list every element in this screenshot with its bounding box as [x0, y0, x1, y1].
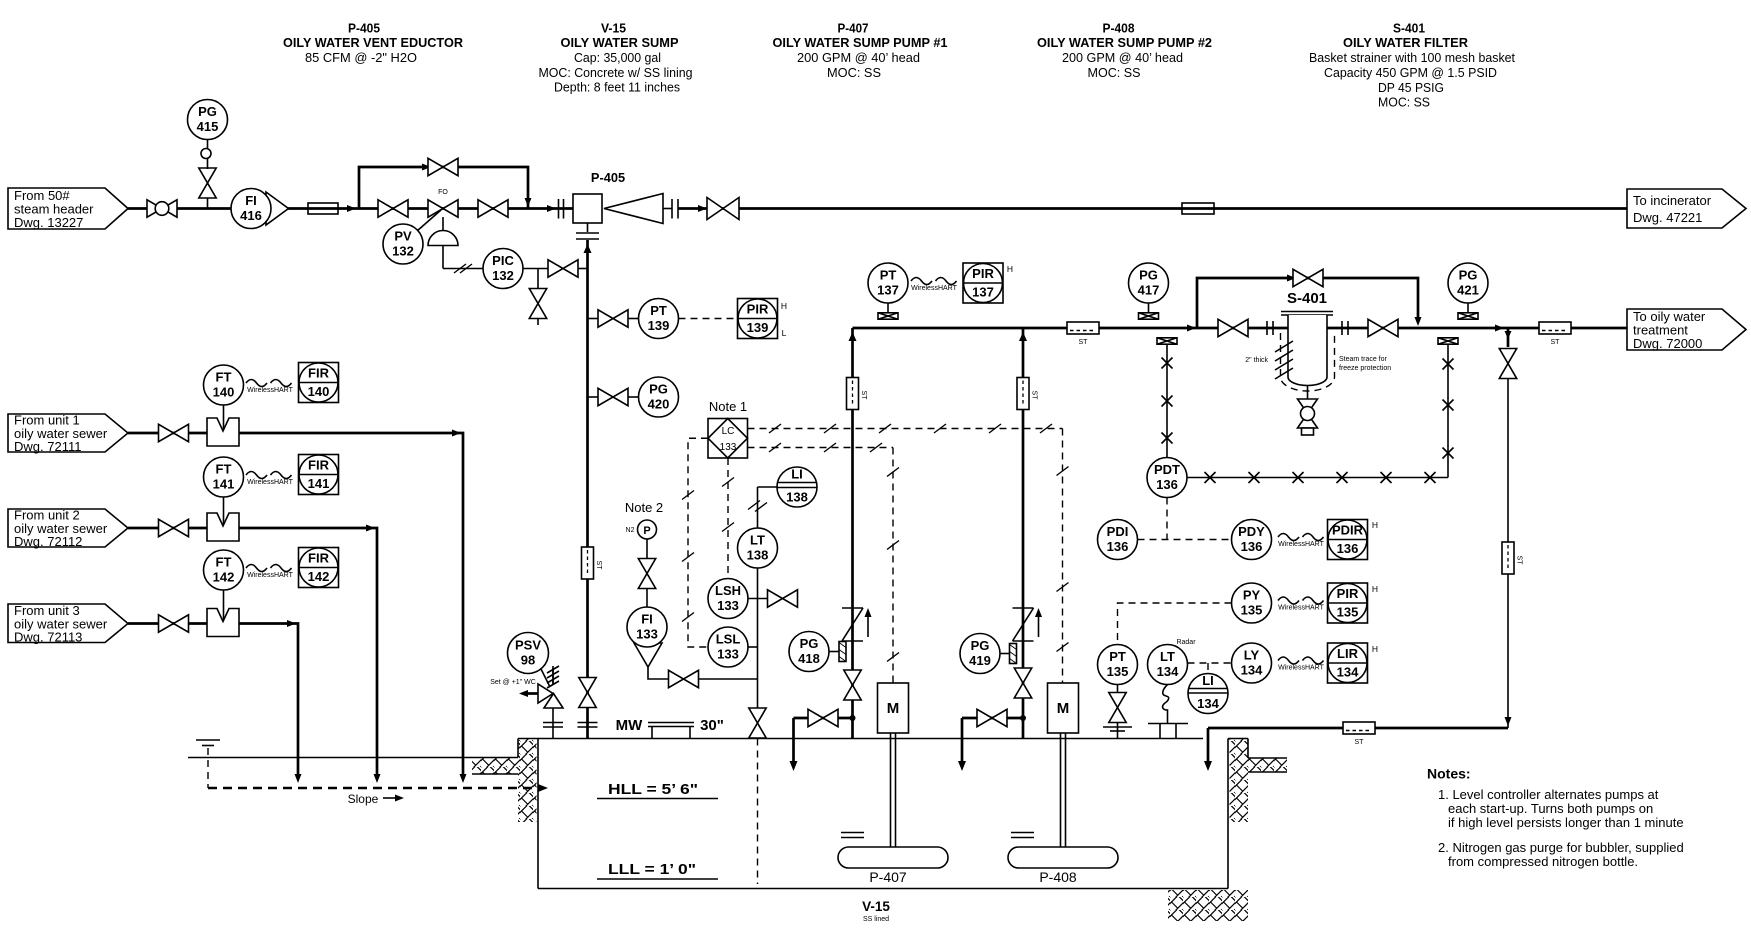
svg-text:PY: PY	[1243, 588, 1261, 603]
svg-text:PDY: PDY	[1238, 524, 1265, 539]
svg-text:Dwg. 72113: Dwg. 72113	[14, 630, 82, 645]
svg-text:85 CFM @ -2" H2O: 85 CFM @ -2" H2O	[305, 50, 417, 65]
svg-text:133: 133	[717, 598, 739, 613]
svg-text:136: 136	[1156, 477, 1178, 492]
svg-text:M: M	[887, 700, 900, 717]
svg-text:FT: FT	[216, 462, 232, 477]
svg-text:OILY WATER SUMP PUMP #1: OILY WATER SUMP PUMP #1	[773, 35, 948, 50]
svg-text:WirelessHART: WirelessHART	[911, 285, 957, 292]
svg-text:417: 417	[1138, 283, 1160, 298]
svg-text:V-15: V-15	[601, 21, 626, 36]
svg-text:420: 420	[648, 397, 670, 412]
svg-text:Notes:: Notes:	[1427, 766, 1471, 782]
svg-text:MOC: SS: MOC: SS	[1378, 95, 1430, 110]
svg-text:PG: PG	[971, 638, 990, 653]
svg-text:415: 415	[197, 119, 219, 134]
svg-text:PT: PT	[650, 303, 667, 318]
svg-text:HLL = 5’ 6": HLL = 5’ 6"	[608, 781, 698, 798]
svg-text:141: 141	[213, 477, 235, 492]
svg-text:FIR: FIR	[308, 366, 330, 381]
svg-text:30": 30"	[700, 717, 724, 734]
svg-text:142: 142	[213, 570, 235, 585]
svg-text:P-407: P-407	[869, 869, 907, 885]
svg-text:OILY WATER FILTER: OILY WATER FILTER	[1343, 35, 1468, 50]
svg-text:Note 1: Note 1	[709, 399, 747, 414]
svg-text:419: 419	[969, 653, 991, 668]
svg-text:S-401: S-401	[1287, 290, 1327, 307]
svg-text:OILY WATER SUMP PUMP #2: OILY WATER SUMP PUMP #2	[1037, 35, 1212, 50]
svg-text:ST: ST	[595, 561, 602, 571]
svg-text:PG: PG	[800, 636, 819, 651]
svg-text:LT: LT	[1160, 649, 1175, 664]
svg-text:2" thick: 2" thick	[1245, 357, 1268, 364]
svg-text:L: L	[782, 328, 787, 338]
svg-text:Capacity 450 GPM @ 1.5 PSID: Capacity 450 GPM @ 1.5 PSID	[1324, 65, 1497, 80]
svg-text:WirelessHART: WirelessHART	[247, 387, 293, 394]
svg-text:ST: ST	[1079, 339, 1089, 346]
svg-text:H: H	[1007, 264, 1013, 274]
svg-text:FO: FO	[438, 189, 448, 196]
svg-text:H: H	[1372, 584, 1378, 594]
svg-text:PG: PG	[649, 382, 668, 397]
svg-text:WirelessHART: WirelessHART	[1278, 665, 1324, 672]
svg-text:if high level persists longer: if high level persists longer than 1 min…	[1448, 815, 1684, 830]
svg-text:H: H	[781, 301, 787, 311]
svg-text:PT: PT	[880, 268, 897, 283]
svg-text:ST: ST	[860, 391, 867, 401]
svg-text:134: 134	[1157, 664, 1179, 679]
svg-text:LIR: LIR	[1337, 646, 1359, 661]
svg-text:To incinerator: To incinerator	[1633, 193, 1712, 208]
svg-text:LT: LT	[750, 533, 765, 548]
svg-text:Dwg. 72112: Dwg. 72112	[14, 534, 82, 549]
svg-text:137: 137	[972, 285, 994, 300]
svg-text:135: 135	[1241, 603, 1263, 618]
svg-text:Depth: 8 feet 11 inches: Depth: 8 feet 11 inches	[554, 80, 680, 95]
svg-text:N2: N2	[626, 527, 635, 534]
svg-text:133: 133	[720, 442, 737, 453]
svg-text:Dwg. 72000: Dwg. 72000	[1633, 336, 1702, 351]
svg-text:98: 98	[521, 653, 535, 668]
svg-text:135: 135	[1337, 605, 1359, 620]
svg-text:138: 138	[786, 490, 808, 505]
svg-text:134: 134	[1337, 665, 1359, 680]
svg-text:from compressed nitrogen bottl: from compressed nitrogen bottle.	[1448, 854, 1638, 869]
svg-text:ST: ST	[1516, 556, 1523, 566]
svg-text:132: 132	[492, 268, 514, 283]
svg-text:H: H	[1372, 644, 1378, 654]
svg-text:ST: ST	[1031, 391, 1038, 401]
svg-text:135: 135	[1107, 664, 1129, 679]
svg-text:140: 140	[213, 385, 235, 400]
svg-text:132: 132	[392, 244, 414, 259]
svg-text:PIC: PIC	[492, 253, 514, 268]
svg-text:FI: FI	[641, 612, 653, 627]
svg-text:PDIR: PDIR	[1332, 523, 1364, 538]
svg-text:PG: PG	[1139, 268, 1158, 283]
svg-text:2. Nitrogen gas purge for bubb: 2. Nitrogen gas purge for bubbler, suppl…	[1438, 840, 1684, 855]
svg-text:Steam trace for: Steam trace for	[1339, 356, 1388, 363]
svg-text:LY: LY	[1244, 648, 1260, 663]
svg-text:142: 142	[308, 569, 330, 584]
svg-text:140: 140	[308, 384, 330, 399]
svg-text:LC: LC	[722, 426, 735, 437]
svg-text:Set @ +1" WC: Set @ +1" WC	[490, 679, 536, 686]
svg-text:OILY WATER VENT EDUCTOR: OILY WATER VENT EDUCTOR	[283, 35, 463, 50]
svg-text:PG: PG	[1459, 268, 1478, 283]
svg-text:M: M	[1057, 700, 1070, 717]
svg-text:P-405: P-405	[348, 21, 380, 36]
svg-text:DP 45 PSIG: DP 45 PSIG	[1378, 80, 1444, 95]
svg-text:416: 416	[240, 208, 262, 223]
svg-text:ST: ST	[1551, 339, 1561, 346]
svg-text:Basket strainer with 100 mesh: Basket strainer with 100 mesh basket	[1309, 50, 1515, 65]
svg-text:FT: FT	[216, 555, 232, 570]
svg-text:freeze protection: freeze protection	[1339, 365, 1391, 372]
svg-text:PIR: PIR	[1337, 586, 1359, 601]
svg-text:PG: PG	[198, 104, 217, 119]
svg-text:Radar: Radar	[1176, 639, 1196, 646]
svg-text:P-408: P-408	[1103, 21, 1135, 36]
svg-text:133: 133	[717, 647, 739, 662]
svg-text:136: 136	[1107, 539, 1129, 554]
svg-text:MW: MW	[616, 717, 643, 734]
svg-text:139: 139	[747, 320, 769, 335]
svg-text:136: 136	[1337, 541, 1359, 556]
svg-text:FT: FT	[216, 370, 232, 385]
svg-text:MOC: Concrete w/ SS lining: MOC: Concrete w/ SS lining	[539, 65, 693, 80]
svg-text:PT: PT	[1109, 649, 1126, 664]
svg-text:LLL = 1’ 0": LLL = 1’ 0"	[608, 861, 696, 878]
svg-text:H: H	[1372, 520, 1378, 530]
svg-text:133: 133	[636, 627, 658, 642]
svg-text:P-407: P-407	[838, 21, 869, 36]
svg-text:200 GPM @ 40’ head: 200 GPM @ 40’ head	[1062, 50, 1183, 65]
svg-text:WirelessHART: WirelessHART	[1278, 541, 1324, 548]
svg-text:LI: LI	[1202, 673, 1214, 688]
svg-text:LI: LI	[791, 467, 803, 482]
svg-text:WirelessHART: WirelessHART	[1278, 605, 1324, 612]
svg-text:PSV: PSV	[515, 638, 541, 653]
svg-text:PDT: PDT	[1154, 462, 1180, 477]
svg-text:Dwg. 47221: Dwg. 47221	[1633, 210, 1702, 225]
svg-text:Dwg. 13227: Dwg. 13227	[14, 215, 83, 230]
svg-text:418: 418	[798, 651, 820, 666]
svg-text:P-405: P-405	[591, 170, 625, 185]
svg-text:Note 2: Note 2	[625, 500, 663, 515]
svg-text:200 GPM @ 40’ head: 200 GPM @ 40’ head	[797, 50, 920, 65]
svg-text:141: 141	[308, 476, 330, 491]
svg-text:PDI: PDI	[1107, 524, 1129, 539]
svg-text:FIR: FIR	[308, 458, 330, 473]
svg-text:ST: ST	[1355, 739, 1365, 746]
svg-text:1. Level controller alternates: 1. Level controller alternates pumps at	[1438, 787, 1659, 802]
svg-text:P-408: P-408	[1039, 869, 1077, 885]
svg-text:Cap: 35,000 gal: Cap: 35,000 gal	[574, 50, 661, 65]
svg-text:134: 134	[1241, 663, 1263, 678]
svg-text:Slope: Slope	[348, 792, 379, 806]
svg-text:SS lined: SS lined	[863, 916, 889, 923]
svg-text:FIR: FIR	[308, 551, 330, 566]
svg-text:139: 139	[648, 318, 670, 333]
svg-text:PIR: PIR	[747, 302, 769, 317]
svg-text:S-401: S-401	[1393, 21, 1425, 36]
svg-text:WirelessHART: WirelessHART	[247, 479, 293, 486]
svg-text:P: P	[643, 525, 650, 537]
svg-text:MOC: SS: MOC: SS	[1088, 65, 1141, 80]
svg-text:138: 138	[747, 548, 769, 563]
svg-text:LSH: LSH	[715, 583, 741, 598]
svg-text:PV: PV	[394, 229, 412, 244]
svg-text:MOC: SS: MOC: SS	[827, 65, 881, 80]
svg-text:V-15: V-15	[862, 899, 890, 914]
svg-text:FI: FI	[245, 193, 257, 208]
svg-text:Dwg. 72111: Dwg. 72111	[14, 439, 81, 454]
svg-text:OILY WATER SUMP: OILY WATER SUMP	[561, 35, 679, 50]
svg-text:421: 421	[1457, 283, 1479, 298]
svg-text:134: 134	[1197, 696, 1219, 711]
svg-text:137: 137	[877, 283, 899, 298]
svg-text:WirelessHART: WirelessHART	[247, 572, 293, 579]
svg-text:LSL: LSL	[716, 632, 741, 647]
svg-text:each start-up. Turns both pum: each start-up. Turns both pumps on	[1448, 801, 1653, 816]
svg-text:PIR: PIR	[972, 266, 994, 281]
svg-text:136: 136	[1241, 539, 1263, 554]
